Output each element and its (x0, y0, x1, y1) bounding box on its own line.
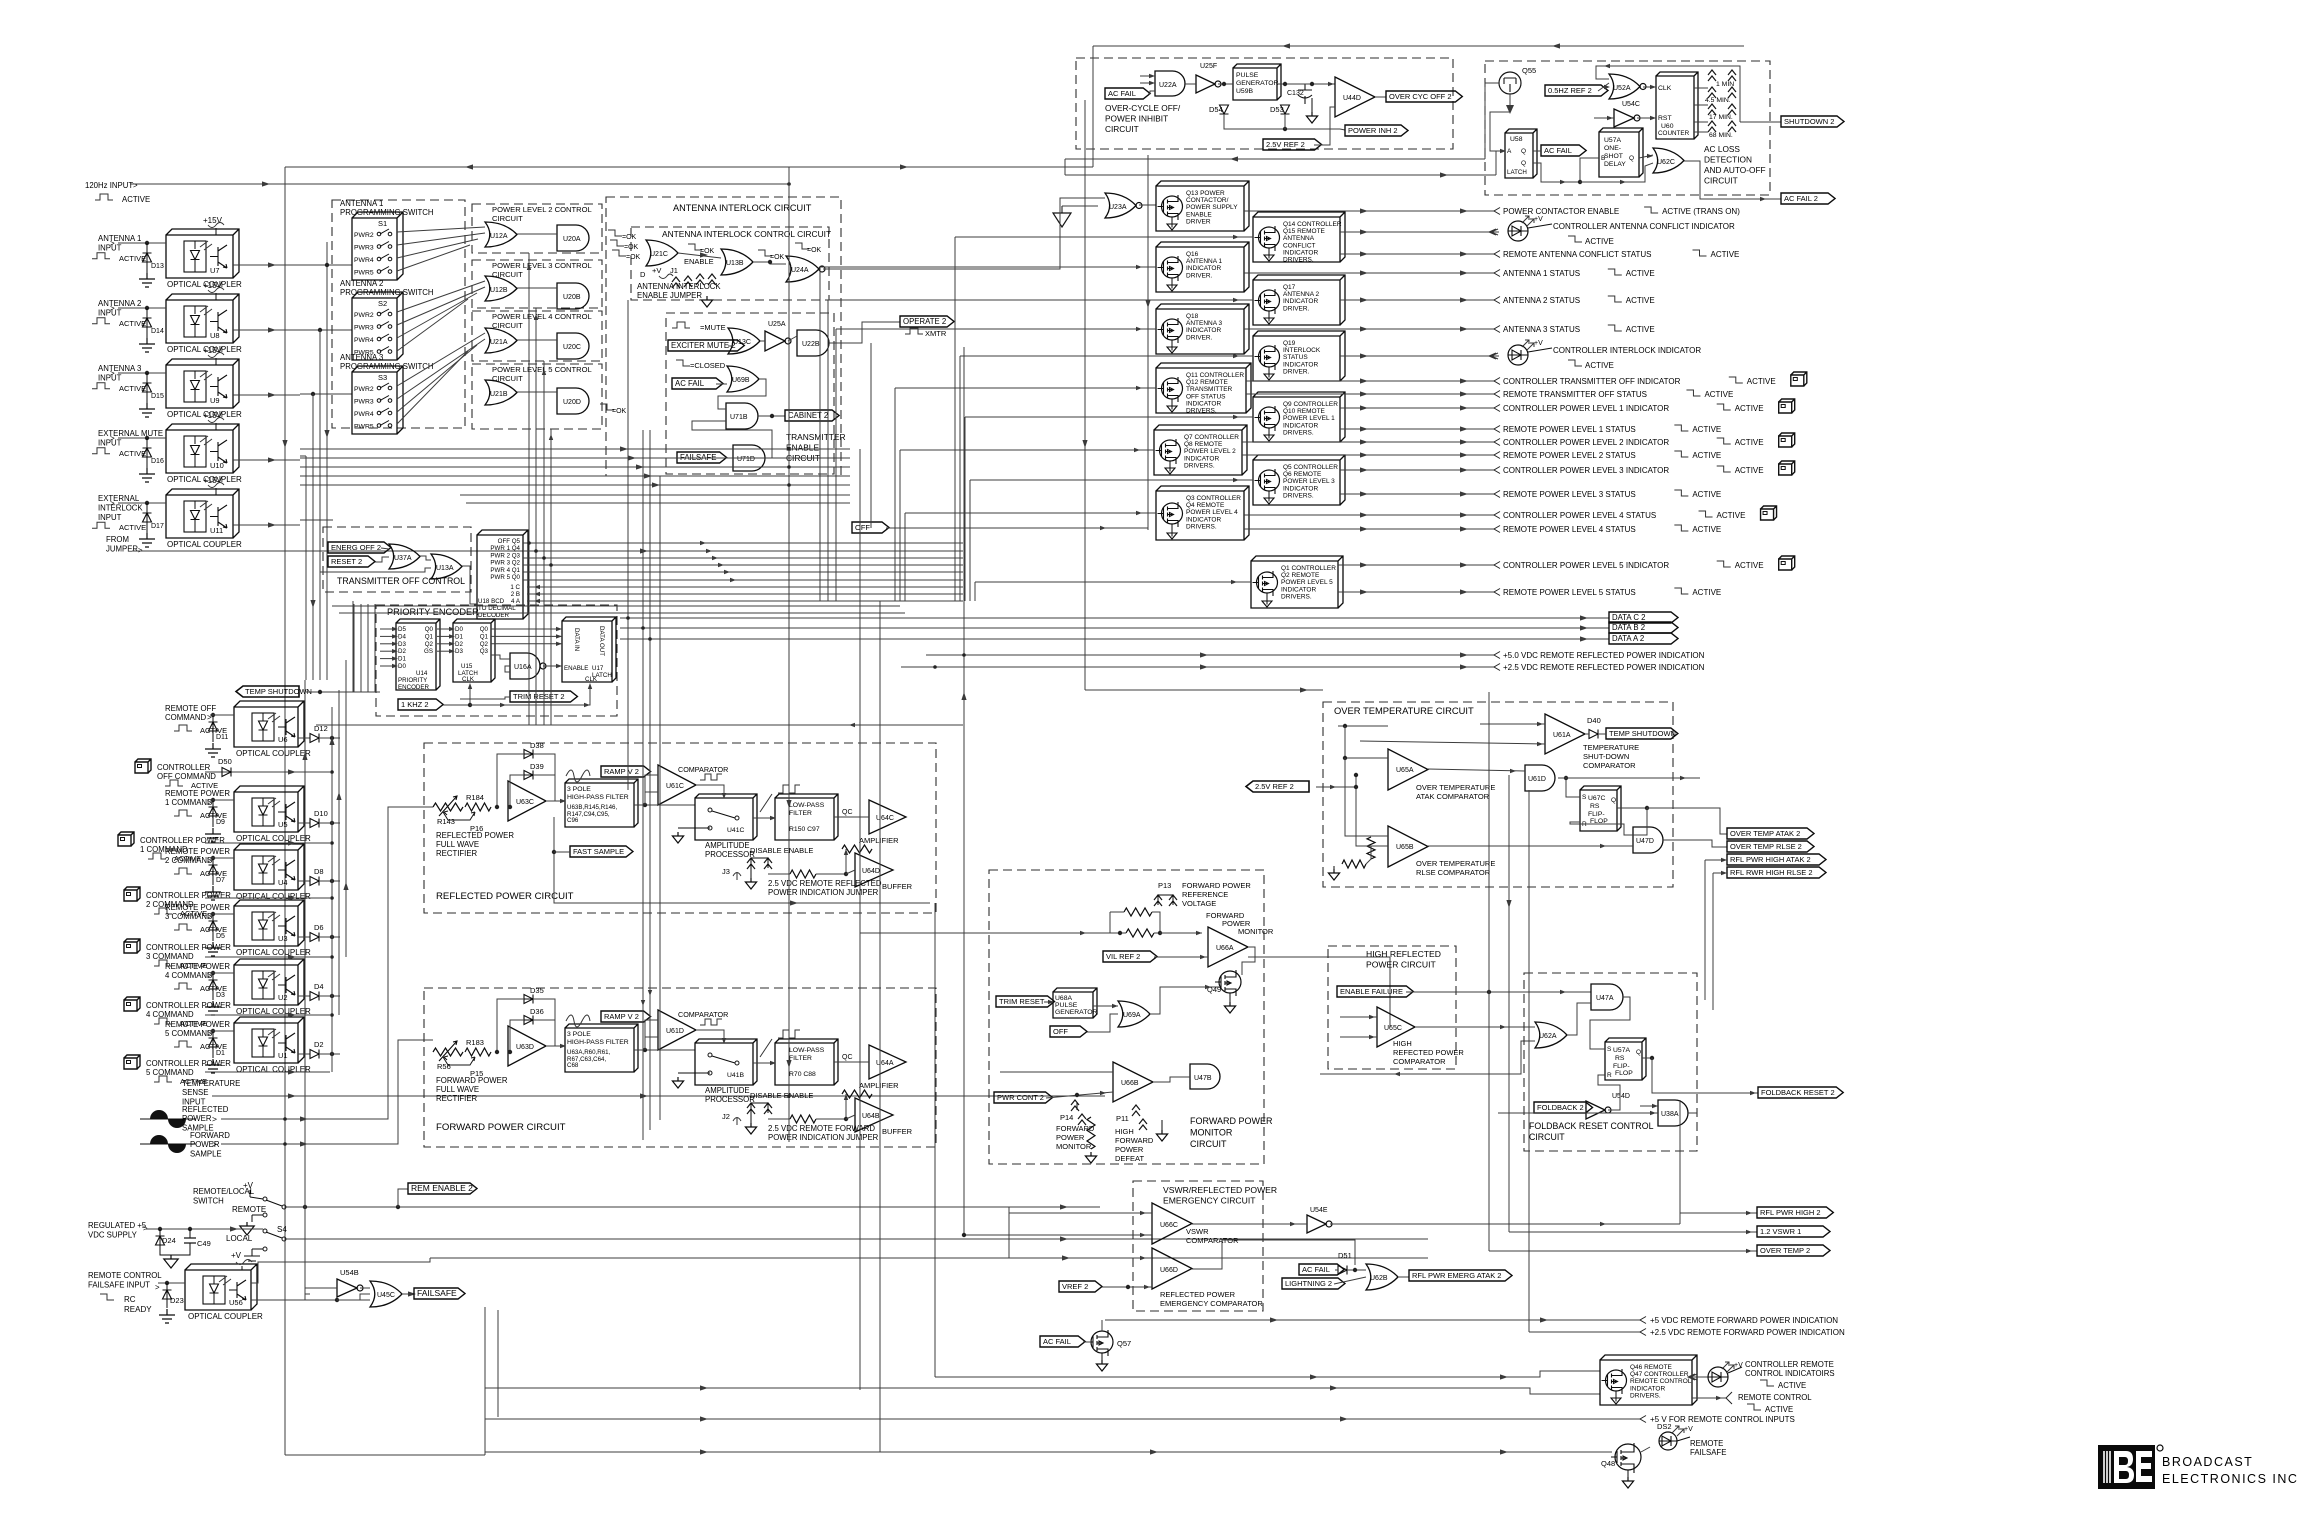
diode D12 (298, 737, 310, 739)
svg-text:FORWARD: FORWARD (1056, 1124, 1095, 1133)
diode D5 (211, 912, 215, 916)
svg-text:BUFFER: BUFFER (882, 882, 913, 891)
svg-text:Q9 CONTROLLER: Q9 CONTROLLER (1283, 401, 1338, 408)
wire feedback diodes (497, 999, 524, 1052)
dashed box foldback reset control circuit (1524, 973, 1697, 1151)
svg-text:ANTENNA: ANTENNA (1283, 235, 1315, 242)
svg-text:AMPLITUDE: AMPLITUDE (705, 841, 750, 850)
svg-text:ENCODER: ENCODER (398, 684, 429, 691)
svg-text:Q3 CONTROLLER: Q3 CONTROLLER (1186, 495, 1241, 502)
svg-text:DRIVERS.: DRIVERS. (1184, 462, 1215, 469)
dashed box vswr emergency circuit (1133, 1181, 1263, 1311)
svg-text:OPTICAL COUPLER: OPTICAL COUPLER (236, 749, 311, 758)
svg-text:POWER LEVEL 3 CONTROL: POWER LEVEL 3 CONTROL (492, 261, 592, 270)
svg-text:D: D (640, 270, 646, 279)
svg-text:INDICATOR: INDICATOR (1283, 422, 1318, 429)
svg-text:+V: +V (1684, 1426, 1693, 1433)
svg-text:POWER INH 2: POWER INH 2 (1348, 126, 1398, 135)
svg-text:ACTIVE: ACTIVE (1711, 250, 1740, 259)
diode D50 (222, 768, 231, 777)
svg-text:U61C: U61C (666, 783, 684, 790)
wire mid verticals interlock outputs (627, 300, 629, 790)
wires over temp inputs (1338, 725, 1388, 727)
svg-text:ANTENNA 1: ANTENNA 1 (98, 234, 141, 243)
svg-text:OVER TEMP 2: OVER TEMP 2 (1760, 1246, 1810, 1255)
wire D51 to U62B (1347, 1269, 1366, 1271)
svg-text:+V: +V (1534, 216, 1543, 223)
svg-text:1 COMMAND: 1 COMMAND (140, 845, 188, 854)
svg-text:P14: P14 (1060, 1113, 1073, 1122)
wire from jumper (132, 550, 870, 552)
wire output row REMOTE POWER LEVEL 5 STATUS (1338, 591, 1494, 593)
wire lightning to U62B (1334, 1277, 1366, 1284)
wire bus x1085 turn right to over temp (1085, 689, 1323, 691)
ground jumper (750, 1113, 752, 1123)
svg-text:INDICATOR: INDICATOR (1283, 249, 1318, 256)
wires forward ref network (1108, 932, 1126, 934)
svg-text:DELAY: DELAY (1604, 161, 1626, 168)
transistor driver block Q7 Q8 (1154, 425, 1247, 475)
resistor P14 chain (1087, 1117, 1095, 1149)
svg-text:VIL REF 2: VIL REF 2 (1106, 952, 1140, 961)
svg-text:U65B: U65B (1396, 844, 1414, 851)
svg-text:U69B: U69B (732, 377, 750, 384)
svg-text:TRANSMITTER: TRANSMITTER (786, 432, 846, 442)
wire flags risers (1679, 1100, 1681, 1213)
wire output row REMOTE POWER LEVEL 1 STATUS (1340, 428, 1494, 430)
flag CABINET 2 (758, 415, 785, 417)
svg-text:U64C: U64C (876, 815, 894, 822)
timer arrows 17 min (1708, 104, 1716, 115)
wire lpf to amp (834, 816, 869, 818)
diode D1 (211, 1029, 215, 1033)
wire latch to one-shot (1533, 158, 1599, 182)
svg-text:DEFEAT: DEFEAT (1115, 1154, 1144, 1163)
svg-text:ANTENNA 2 STATUS: ANTENNA 2 STATUS (1503, 296, 1580, 305)
flag DATA B 2 (620, 627, 1609, 629)
diode D6 (298, 936, 310, 938)
svg-text:Q2: Q2 (425, 641, 434, 648)
wire output of U8 (233, 329, 300, 331)
wire Q48 to DS2 (1641, 1447, 1650, 1452)
wire D54 D53 bottom (1224, 114, 1340, 129)
diode D14 (145, 306, 149, 310)
svg-text:4 COMMAND: 4 COMMAND (146, 1010, 194, 1019)
svg-text:ACTIVE: ACTIVE (1735, 404, 1764, 413)
svg-text:D0: D0 (455, 626, 463, 633)
wire vil ref to U66A (1154, 956, 1208, 958)
latch U17 (562, 617, 616, 682)
svg-text:REMOTE OFF: REMOTE OFF (165, 704, 216, 713)
svg-text:2.5V REF 2: 2.5V REF 2 (1266, 140, 1305, 149)
svg-text:+15V: +15V (203, 346, 223, 355)
svg-text:PROCESSOR: PROCESSOR (705, 1095, 755, 1104)
flag VREF 2 (1059, 1281, 1102, 1292)
flag AC FAIL overcycle (1105, 88, 1150, 99)
wire mid vertical x860 (859, 449, 861, 1390)
timer arrows 68 min (1708, 121, 1716, 132)
svg-text:DETECTION: DETECTION (1704, 155, 1752, 165)
wire decoder output bus (523, 542, 963, 544)
wire output row CONTROLLER POWER LEVEL 3 INDICATOR (1340, 469, 1494, 471)
svg-text:COMPARATOR: COMPARATOR (678, 765, 728, 774)
diode D13 (145, 241, 149, 245)
svg-text:HIGH: HIGH (1115, 1127, 1134, 1136)
wires U61A inputs (1480, 723, 1545, 725)
svg-text:RECTIFIER: RECTIFIER (436, 1094, 478, 1103)
svg-text:=OK: =OK (612, 408, 627, 415)
svg-text:D7: D7 (216, 877, 225, 884)
wire U54D to U57A R (1598, 1075, 1620, 1110)
mosfet Q49 (1219, 971, 1241, 993)
wire interlock out to U23A (823, 198, 1105, 269)
svg-text:C68: C68 (567, 1062, 579, 1069)
transistor driver block Q18 (1156, 304, 1249, 354)
svg-text:D17: D17 (151, 523, 164, 530)
wire U38A inputs (1640, 1105, 1658, 1107)
svg-text:OVER TEMPERATURE: OVER TEMPERATURE (1416, 783, 1495, 792)
svg-text:ACTIVE: ACTIVE (1692, 525, 1721, 534)
svg-text:U13B: U13B (726, 260, 744, 267)
wire Q57 to +5 line (1101, 1320, 1103, 1331)
wire bus lines y495 y503 (460, 494, 850, 496)
wire vertical bus x1085 (1084, 100, 1086, 690)
feedback resistor (842, 845, 872, 853)
svg-text:Q11 CONTROLLER: Q11 CONTROLLER (1186, 372, 1244, 379)
svg-text:XMTR: XMTR (925, 329, 947, 338)
ground U56 (159, 1309, 175, 1323)
svg-text:ANTENNA INTERLOCK CIRCUIT: ANTENNA INTERLOCK CIRCUIT (673, 203, 812, 213)
svg-text:AMPLITUDE: AMPLITUDE (705, 1086, 750, 1095)
diode D2 (298, 1053, 310, 1055)
optical coupler U3 (234, 900, 304, 946)
svg-text:>: > (133, 181, 138, 190)
svg-text:U25A: U25A (768, 321, 786, 328)
svg-text:POWER INHIBIT: POWER INHIBIT (1105, 114, 1168, 124)
svg-text:RFL RWR HIGH RLSE 2: RFL RWR HIGH RLSE 2 (1730, 868, 1813, 877)
svg-text:POWER LEVEL 5: POWER LEVEL 5 (1281, 579, 1333, 586)
optical coupler U8 (166, 294, 239, 343)
svg-text:OPTICAL COUPLER: OPTICAL COUPLER (167, 540, 242, 549)
low-pass filter box (775, 794, 838, 840)
label OK above U24A (795, 243, 809, 249)
svg-text:REMOTE POWER LEVEL 3 STATUS: REMOTE POWER LEVEL 3 STATUS (1503, 490, 1636, 499)
wires into U14 (380, 628, 396, 630)
svg-text:C49: C49 (197, 1239, 211, 1248)
ground for U10 (139, 468, 155, 482)
svg-text:ACTIVE: ACTIVE (1717, 511, 1746, 520)
gate U23A nor (1105, 193, 1136, 218)
svg-text:AC FAIL: AC FAIL (675, 379, 705, 388)
svg-text:U58: U58 (1510, 136, 1523, 143)
LED indicator CONTROLLER INTERLOCK INDICATOR (1508, 345, 1528, 365)
svg-text:P11: P11 (1116, 1114, 1129, 1123)
optical coupler U5 (234, 786, 304, 832)
ground over temp divider (1328, 869, 1339, 880)
svg-text:D40: D40 (1587, 716, 1601, 725)
amplifier U64C (869, 800, 906, 834)
svg-text:A: A (1507, 148, 1512, 155)
svg-text:ACTIVE: ACTIVE (180, 909, 207, 918)
svg-text:INDICATOR: INDICATOR (1630, 1385, 1665, 1392)
svg-text:ACTIVE: ACTIVE (1692, 490, 1721, 499)
svg-text:GENERATOR: GENERATOR (1236, 80, 1279, 87)
svg-text:U20C: U20C (563, 344, 581, 351)
gate U13B (721, 249, 753, 275)
svg-text:Q47 CONTROLLER: Q47 CONTROLLER (1630, 1371, 1689, 1378)
wire reflected sample (221, 807, 424, 1119)
wire U54C to U60 (1637, 117, 1656, 119)
svg-text:+5.0 VDC REMOTE REFLECTED POWE: +5.0 VDC REMOTE REFLECTED POWER INDICATI… (1503, 651, 1705, 660)
svg-text:D11: D11 (216, 734, 228, 741)
gate U71D (733, 445, 765, 471)
svg-text:CONTROLLER POWER: CONTROLLER POWER (140, 836, 225, 845)
flag FAST SAMPLE (570, 846, 633, 857)
wire driver feed verticals (954, 237, 956, 601)
svg-text:REMOTE: REMOTE (1690, 1439, 1723, 1448)
wire input to U5 (210, 799, 234, 801)
optical coupler U1 (234, 1017, 304, 1063)
svg-text:+15V: +15V (203, 216, 223, 225)
svg-text:CLK: CLK (1658, 85, 1672, 92)
ground for U9 (139, 403, 155, 417)
wire remote control row 2 (485, 1388, 1600, 1394)
svg-text:ACTIVE: ACTIVE (1692, 451, 1721, 460)
svg-text:3 POLE: 3 POLE (567, 1031, 591, 1038)
gate U69A (1118, 1001, 1150, 1027)
svg-text:D35: D35 (530, 986, 544, 995)
wire feedback diodes (497, 754, 524, 807)
svg-text:D5: D5 (398, 626, 406, 633)
optical coupler U7 (166, 229, 239, 278)
flag ENABLE FAILURE (1337, 986, 1413, 997)
svg-text:FULL WAVE: FULL WAVE (436, 1085, 479, 1094)
svg-text:ANTENNA 1 STATUS: ANTENNA 1 STATUS (1503, 269, 1580, 278)
flag FOLDBACK 2 (1534, 1102, 1593, 1113)
comparator U66D reflected emergency (1152, 1248, 1192, 1289)
diode D24 (159, 1229, 161, 1247)
arrow below Q55 (1506, 105, 1514, 114)
svg-text:INDICATOR: INDICATOR (1283, 361, 1318, 368)
svg-text:AC FAIL: AC FAIL (1108, 89, 1136, 98)
resistor forward ref lower (1126, 929, 1154, 937)
svg-text:D2: D2 (455, 641, 463, 648)
svg-text:2 B: 2 B (511, 591, 520, 598)
wire input to U6 (210, 714, 234, 716)
svg-text:MONITOR: MONITOR (1238, 927, 1274, 936)
driver block Q46 Q47 remote control (1600, 1355, 1697, 1405)
wire output row ANTENNA 1 STATUS (1244, 272, 1494, 274)
svg-text:U71D: U71D (737, 456, 755, 463)
svg-text:ELECTRONICS INC: ELECTRONICS INC (2162, 1472, 2298, 1486)
svg-text:OPERATE 2: OPERATE 2 (903, 317, 946, 326)
flag RFL PWR HIGH ATAK 2 (1727, 854, 1826, 865)
svg-text:AMPLIFIER: AMPLIFIER (859, 1081, 899, 1090)
wire processor to lpf (753, 1062, 775, 1064)
wire output row REMOTE POWER LEVEL 4 STATUS (1244, 528, 1494, 530)
svg-text:Q15 REMOTE: Q15 REMOTE (1283, 228, 1326, 235)
svg-text:U12A: U12A (490, 233, 508, 240)
transistor driver block Q16 (1156, 242, 1249, 292)
svg-text:ACTIVE: ACTIVE (1778, 1381, 1806, 1390)
svg-text:RFL PWR HIGH 2: RFL PWR HIGH 2 (1760, 1208, 1821, 1217)
wire output row CONTROLLER POWER LEVEL 4 STATUS (1244, 514, 1494, 516)
wire 2.5v ref (1316, 786, 1356, 788)
amplifier U64A (869, 1045, 906, 1079)
flag LIGHTNING 2 (1282, 1278, 1345, 1289)
logo Broadcast Electronics (2098, 1445, 2155, 1489)
wire output of U9 (233, 394, 300, 396)
svg-text:Q16: Q16 (1186, 251, 1199, 258)
controller command input CONTROLLER POWER 2 COMMAND (124, 887, 140, 901)
wire controller command (205, 956, 330, 958)
svg-text:ACTIVE: ACTIVE (1735, 561, 1764, 570)
ground for U8 (139, 338, 155, 352)
potentiometer R143 (433, 803, 463, 811)
svg-text:COMPARATOR: COMPARATOR (1393, 1057, 1446, 1066)
junction dots on buses (787, 447, 791, 451)
svg-text:PWR5: PWR5 (354, 424, 374, 431)
svg-text:AC FAIL: AC FAIL (1302, 1265, 1330, 1274)
wire OPERATE 2 from U22B (829, 322, 900, 343)
svg-text:ACTIVE (TRANS ON): ACTIVE (TRANS ON) (1662, 207, 1740, 216)
gate U21B (485, 380, 517, 405)
buffer U64D (855, 853, 893, 887)
flag RFL RWR HIGH RLSE 2 (1727, 867, 1826, 878)
ground P14 (1085, 1152, 1096, 1163)
wire U71D to U22B loop (692, 421, 772, 458)
svg-text:INDICATOR: INDICATOR (1184, 455, 1219, 462)
svg-text:U11: U11 (210, 526, 223, 535)
svg-text:FORWARD: FORWARD (190, 1131, 230, 1140)
ground for U11 (139, 533, 155, 547)
svg-text:CONTROLLER REMOTE: CONTROLLER REMOTE (1745, 1360, 1834, 1369)
svg-text:DATA OUT: DATA OUT (598, 626, 605, 656)
flag DATA A 2 (620, 638, 1609, 640)
svg-text:REMOTE POWER LEVEL 2 STATUS: REMOTE POWER LEVEL 2 STATUS (1503, 451, 1636, 460)
dashed box high reflected power circuit (1328, 946, 1456, 1069)
flag TEMP SHUTDOWN output (1606, 728, 1678, 739)
svg-text:4.5 MIN.: 4.5 MIN. (1705, 97, 1731, 104)
svg-text:U54E: U54E (1310, 1207, 1328, 1214)
svg-text:Q8 REMOTE: Q8 REMOTE (1184, 441, 1223, 448)
svg-text:ANTENNA 3: ANTENNA 3 (98, 364, 141, 373)
wire +5.0 VDC remote reflected (926, 654, 1494, 656)
svg-text:SHOT: SHOT (1604, 153, 1623, 160)
wire input to U7 (118, 242, 166, 244)
svg-text:CONTROLLER POWER: CONTROLLER POWER (146, 891, 231, 900)
svg-text:OFF: OFF (1053, 1027, 1068, 1036)
wire U59B to U44D (1277, 83, 1335, 85)
ground P11 (1161, 1120, 1163, 1130)
diode D35 (522, 998, 540, 1000)
svg-text:GS: GS (424, 648, 433, 655)
svg-text:J3: J3 (722, 867, 730, 876)
wire U25F to U59B (1218, 83, 1233, 85)
wire U68A to U69A (1093, 1005, 1118, 1007)
svg-text:U6: U6 (278, 735, 288, 744)
svg-text:FOLDBACK RESET CONTROL: FOLDBACK RESET CONTROL (1529, 1121, 1654, 1131)
svg-text:U38A: U38A (1661, 1111, 1679, 1118)
svg-text:POWER INDICATION JUMPER: POWER INDICATION JUMPER (768, 1133, 879, 1142)
wire extra staircase from couplers (352, 601, 354, 692)
wire temp shutdown to encoder (306, 691, 380, 693)
pulse generator U59B (1233, 64, 1281, 100)
svg-text:U47D: U47D (1636, 838, 1654, 845)
wire output of U3 via D6 (319, 936, 340, 938)
svg-text:RAMP V 2: RAMP V 2 (604, 1012, 639, 1021)
svg-text:Q1 CONTROLLER: Q1 CONTROLLER (1281, 565, 1336, 572)
svg-text:D3: D3 (398, 641, 406, 648)
transistor driver block Q1 Q2 (1251, 556, 1343, 608)
svg-text:U61D: U61D (666, 1028, 684, 1035)
svg-text:CLK: CLK (585, 676, 598, 683)
gate U47B (1190, 1064, 1220, 1089)
svg-text:ACTIVE: ACTIVE (1735, 438, 1764, 447)
svg-text:RST: RST (1658, 115, 1672, 122)
svg-text:D23: D23 (170, 1296, 184, 1305)
svg-text:RESET 2: RESET 2 (331, 557, 362, 566)
svg-text:INDICATOR: INDICATOR (1186, 327, 1221, 334)
svg-text:FAILSAFE INPUT: FAILSAFE INPUT (88, 1280, 150, 1289)
svg-text:ACTIVE: ACTIVE (1585, 361, 1614, 370)
svg-text:INTERLOCK: INTERLOCK (1283, 347, 1321, 354)
svg-text:U59B: U59B (1236, 88, 1253, 95)
svg-text:ANTENNA INTERLOCK CONTROL CIRC: ANTENNA INTERLOCK CONTROL CIRCUIT (662, 229, 831, 239)
svg-text:COMPARATOR: COMPARATOR (1583, 761, 1636, 770)
svg-text:Q17: Q17 (1283, 284, 1296, 291)
wire output row REMOTE ANTENNA CONFLICT STATUS (1340, 253, 1494, 255)
svg-text:REMOTE ANTENNA CONFLICT STATUS: REMOTE ANTENNA CONFLICT STATUS (1503, 250, 1651, 259)
svg-text:PWR4: PWR4 (354, 257, 374, 264)
svg-text:CONTROLLER POWER: CONTROLLER POWER (146, 1001, 231, 1010)
controller command input CONTROLLER POWER 3 COMMAND (124, 939, 140, 953)
wire U66C to U54E (1192, 1223, 1307, 1225)
label closed (676, 360, 690, 366)
wire temperature sense (212, 1095, 1105, 1097)
latch U58 (1505, 129, 1537, 178)
svg-text:D16: D16 (151, 458, 164, 465)
wire mid vertical x871 (870, 343, 872, 528)
amplitude processor U41C (695, 794, 757, 840)
svg-text:U64B: U64B (862, 1113, 880, 1120)
svg-text:D1: D1 (398, 656, 406, 663)
timer arrows 1 min (1708, 70, 1716, 81)
svg-text:ACTIVE: ACTIVE (1765, 1405, 1793, 1414)
ground local switch (252, 1248, 263, 1250)
diode D10 (298, 822, 310, 824)
flag ENERG OFF 2 (328, 542, 391, 553)
svg-text:CONTROLLER INTERLOCK INDICATOR: CONTROLLER INTERLOCK INDICATOR (1553, 346, 1701, 355)
wire top risers (1092, 46, 1094, 167)
wire mid verticals from power levels (528, 253, 530, 725)
gate U20A (557, 225, 589, 251)
svg-text:D51: D51 (1338, 1251, 1352, 1260)
svg-text:DRIVER.: DRIVER. (1186, 334, 1213, 341)
wire U22A to U25F (1185, 83, 1196, 85)
wire top rail y167 (285, 166, 1093, 168)
wire U65B out to U47D (1428, 845, 1633, 847)
svg-text:HIGH: HIGH (1393, 1039, 1412, 1048)
3 pole high-pass filter box (565, 779, 638, 827)
svg-text:ACTIVE: ACTIVE (122, 195, 150, 204)
gate U52A (1609, 74, 1640, 99)
flag FAILSAFE input (677, 452, 727, 463)
comparator U66B (1113, 1062, 1153, 1102)
diode D9 (211, 798, 215, 802)
amplifier U63C (508, 781, 546, 821)
flip-flop U57A RS foldback (1605, 1038, 1646, 1080)
